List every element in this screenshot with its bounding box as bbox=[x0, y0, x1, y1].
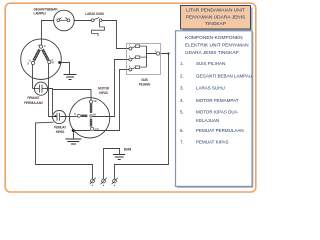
svg-text:PERMULAAN: PERMULAAN bbox=[24, 101, 43, 105]
svg-text:BUMI: BUMI bbox=[124, 147, 132, 151]
wire: selector output down right side to plug prong 3 bbox=[115, 54, 169, 180]
svg-text:GEGANTI BEBAN LAMPAU: GEGANTI BEBAN LAMPAU bbox=[196, 74, 252, 79]
svg-text:UDARA JENIS TINGKAP: UDARA JENIS TINGKAP bbox=[185, 50, 239, 56]
svg-text:1.: 1. bbox=[180, 61, 184, 66]
svg-text:5.: 5. bbox=[180, 110, 184, 115]
fan motor aux winding to C terminal bbox=[81, 115, 87, 117]
svg-text:S: S bbox=[27, 61, 29, 65]
fan motor centre node bbox=[90, 115, 92, 117]
wire: compressor C terminal up to overload relay bbox=[42, 21, 54, 46]
fan motor lower winding bbox=[90, 119, 92, 127]
overload relay (geganti beban lampau) circle bbox=[54, 10, 75, 31]
compressor winding right band bbox=[42, 49, 48, 60]
start capacitor (pemuat permulaan) bbox=[34, 82, 47, 95]
fan motor C terminal bbox=[77, 114, 80, 117]
wire: compressor R terminal down to fan capacitor left plate bbox=[49, 64, 58, 117]
svg-text:4.: 4. bbox=[180, 98, 184, 103]
wire: start capacitor right lead junction to fan motor top terminal bbox=[48, 89, 91, 101]
wire: selector row 3 to fan motor LO terminal bbox=[94, 70, 129, 131]
svg-text:6.: 6. bbox=[180, 128, 184, 133]
selector switch (suis pilihan) box bbox=[127, 44, 161, 75]
wire: fan motor frame to ground bbox=[73, 131, 75, 139]
svg-text:7.: 7. bbox=[180, 139, 184, 144]
terminal tick marks bbox=[29, 45, 53, 62]
plug prong 2 bbox=[101, 178, 107, 185]
wire: fan capacitor right plate to fan motor C terminal bbox=[62, 116, 77, 118]
wire: overload relay to thermostat bbox=[74, 20, 91, 22]
compressor winding left band bbox=[34, 49, 40, 60]
compressor C terminal bbox=[39, 45, 42, 48]
fan motor LO terminal bbox=[90, 127, 93, 130]
svg-text:KIPAS: KIPAS bbox=[99, 91, 107, 95]
svg-text:PILIHAN: PILIHAN bbox=[139, 82, 151, 86]
selector common bus bbox=[147, 46, 157, 67]
svg-text:MOTOR: MOTOR bbox=[98, 87, 110, 91]
svg-text:KOMPONEN-KOMPONEN: KOMPONEN-KOMPONEN bbox=[185, 35, 243, 41]
ground: fan motor frame bbox=[65, 139, 81, 144]
wire: thermostat to selector switch row 1 bbox=[102, 21, 129, 49]
wire: selector row 2 to fan motor centre bbox=[93, 60, 129, 117]
selector row 2 contact bbox=[129, 56, 147, 61]
svg-text:3.: 3. bbox=[180, 85, 184, 90]
svg-text:PEMUAT PERMULAAN: PEMUAT PERMULAAN bbox=[196, 128, 244, 133]
thermostat sensing capillary bbox=[92, 22, 105, 36]
svg-text:SUIS PILIHAN: SUIS PILIHAN bbox=[196, 61, 225, 66]
wire: junction down to fan capacitor circle edge bbox=[52, 90, 54, 115]
ground: compressor case bbox=[64, 75, 77, 80]
svg-text:LAMPAU: LAMPAU bbox=[34, 12, 47, 16]
svg-text:ELEKTRIK UNIT PENYAMAN: ELEKTRIK UNIT PENYAMAN bbox=[185, 43, 249, 49]
node: compressor case junction dot bbox=[58, 61, 61, 64]
selector pole labels bbox=[129, 45, 157, 68]
svg-text:MOTOR KIPAS DUA: MOTOR KIPAS DUA bbox=[196, 110, 238, 115]
svg-text:LARAS SUHU: LARAS SUHU bbox=[85, 12, 105, 16]
wire: compressor case to ground bbox=[60, 63, 70, 75]
node: fan capacitor lead junction dot bbox=[55, 115, 57, 117]
fan motor (motor kipas) circle bbox=[69, 98, 109, 138]
svg-text:4: 4 bbox=[155, 50, 157, 53]
title box shadow bbox=[183, 8, 253, 32]
plug prong 3 bbox=[112, 178, 118, 185]
compressor R terminal bbox=[48, 60, 51, 63]
fan motor HI terminal bbox=[89, 100, 92, 103]
compressor S terminal bbox=[31, 61, 34, 64]
svg-text:HI: HI bbox=[94, 99, 97, 103]
svg-text:M: M bbox=[93, 112, 96, 116]
title box bbox=[181, 6, 251, 30]
svg-text:C: C bbox=[44, 44, 46, 48]
compressor motor (motor pemampat) circle bbox=[21, 39, 62, 80]
outer orange page border bbox=[5, 3, 256, 192]
svg-text:PENYAMAN UDARA JENIS: PENYAMAN UDARA JENIS bbox=[186, 14, 245, 20]
svg-text:LARAS SUHU: LARAS SUHU bbox=[196, 85, 225, 90]
svg-text:KELAJUAN: KELAJUAN bbox=[196, 118, 219, 123]
svg-text:R: R bbox=[52, 60, 54, 64]
svg-text:PEMUAT KIPAS: PEMUAT KIPAS bbox=[196, 139, 229, 144]
ground BUMI bbox=[113, 155, 125, 160]
fan motor upper winding bbox=[90, 104, 92, 113]
wire: compressor S terminal down to start capacitor bbox=[32, 65, 34, 89]
fan capacitor (pemuat kipas) bbox=[53, 110, 66, 123]
svg-text:2.: 2. bbox=[180, 74, 184, 79]
svg-text:MOTOR PEMAMPAT: MOTOR PEMAMPAT bbox=[196, 98, 239, 103]
svg-text:TINGKAP: TINGKAP bbox=[205, 21, 226, 27]
svg-text:KIPAS: KIPAS bbox=[56, 130, 64, 134]
wire: fan capacitor case down-left to plug prong 1 bbox=[36, 122, 93, 179]
wire: earth prong 2 up to BUMI ground bbox=[104, 149, 120, 180]
selector row 3 contact bbox=[129, 66, 147, 71]
svg-text:C: C bbox=[74, 112, 76, 116]
svg-text:LITAR PENDAWAIAN UNIT: LITAR PENDAWAIAN UNIT bbox=[186, 8, 245, 14]
selector output terminal bbox=[156, 52, 159, 55]
component list box bbox=[176, 31, 253, 187]
wire: start capacitor left lead tap bbox=[33, 88, 35, 90]
plug prong 1 bbox=[90, 178, 96, 185]
svg-text:PEMUAT: PEMUAT bbox=[27, 96, 39, 100]
selector row 1 contact bbox=[129, 45, 147, 50]
node: corner junction at selector output bbox=[167, 52, 169, 54]
thermostat (laras suhu) switch bbox=[91, 17, 102, 21]
node: fan motor frame junction dot bbox=[72, 129, 75, 132]
wire: fan motor LO terminal line to frame dot bbox=[73, 130, 90, 132]
overload relay contacts bbox=[57, 18, 70, 22]
